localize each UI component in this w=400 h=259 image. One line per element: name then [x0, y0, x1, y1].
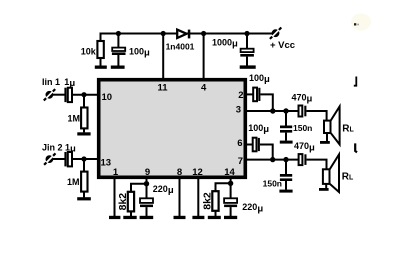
resistor 8k2 (1) [128, 192, 134, 212]
terminal Jin 2 [44, 153, 55, 164]
capacitor 470u (ch1) [299, 106, 303, 117]
wire pin 4 [203, 34, 205, 80]
speaker RL (ch1) [324, 121, 331, 133]
ground (1M in1) [77, 132, 90, 135]
node junction pin9 [144, 181, 149, 186]
diode D1 1n4001 [177, 30, 186, 38]
ground (150n ch2) [279, 190, 292, 193]
svg-text:8: 8 [177, 167, 182, 178]
svg-text:9: 9 [145, 167, 150, 178]
wire pin2 to C100u [246, 93, 254, 95]
resistor 1M (in2) [81, 172, 87, 192]
wire terminal2 to C1u [53, 158, 65, 160]
terminal Jin 1 [44, 89, 55, 100]
wire junction to R 1M (in2) [83, 159, 85, 172]
wire pin8 to ground [179, 178, 181, 216]
ground (1M in2) [77, 197, 91, 200]
terminal +Vcc [270, 28, 281, 39]
capacitor 220u (1) [140, 198, 153, 203]
wire C1u to pin10 [72, 94, 98, 96]
capacitor 220u (2) [224, 198, 237, 203]
bracket mark right edge [354, 77, 357, 86]
svg-text:4: 4 [201, 83, 207, 94]
node junction in1 [81, 92, 86, 97]
wire terminal1 to C1u [53, 94, 65, 96]
node junction pin14 [228, 181, 233, 186]
svg-text:150n: 150n [263, 179, 282, 189]
capacitor 100u (supply left) [112, 48, 125, 51]
svg-text:10k: 10k [81, 47, 97, 57]
ground (220u-1) [140, 216, 154, 219]
wire top rail from 10k to Vcc [101, 34, 274, 42]
svg-text:+ Vcc: + Vcc [270, 40, 295, 51]
ground (220u-2) [224, 216, 237, 219]
node junction rail / C1000u [244, 31, 249, 36]
svg-text:1M: 1M [67, 114, 80, 124]
svg-text:Jin 2: Jin 2 [42, 142, 63, 152]
capacitor 470u (ch2) [299, 154, 303, 165]
ground (8k2-2) [208, 216, 221, 219]
ground (C100u) [111, 66, 125, 69]
speck artifact top right [351, 14, 371, 31]
svg-text:10: 10 [102, 92, 113, 103]
svg-text:12: 12 [192, 167, 203, 178]
node junction rail / pin11 [161, 31, 166, 36]
small mark right edge lower [355, 143, 357, 152]
wire junction to R 1M (in1) [83, 95, 85, 108]
node junction ch2 a [270, 157, 275, 162]
wire pin14 down [230, 178, 232, 198]
svg-text:8k2: 8k2 [202, 192, 214, 210]
ground (C1000u) [240, 65, 256, 68]
wire junction to R8k2 (1) [131, 184, 147, 192]
capacitor 1u (in2) [64, 152, 66, 166]
wire C470u to speaker2 [307, 160, 327, 170]
svg-text:150n: 150n [293, 123, 312, 133]
wire rail to C 100u [117, 34, 119, 48]
capacitor 150n (ch1) [285, 111, 287, 126]
wire pin12 to ground [197, 178, 199, 216]
ground (8k2-1) [123, 216, 136, 219]
capacitor 100u (ch2) [253, 138, 257, 152]
ground (10k) [95, 66, 107, 69]
ground (pin12) [192, 216, 204, 219]
node junction ch1 a [270, 108, 275, 113]
svg-text:2: 2 [238, 90, 243, 101]
wire pin6 to C100u [246, 144, 253, 146]
wire C100u to pin3 net [260, 94, 272, 111]
svg-text:1: 1 [113, 167, 119, 178]
resistor 8k2 (2) [212, 191, 218, 211]
wire pin9 down [146, 178, 148, 198]
svg-text:3: 3 [236, 105, 241, 116]
wire pin1 to ground [114, 178, 116, 216]
svg-text:6: 6 [237, 138, 242, 149]
svg-text:1M: 1M [67, 177, 80, 187]
resistor 10k [97, 41, 103, 58]
capacitor 100u (ch1) [253, 88, 257, 102]
wire pin3 to C470u [246, 110, 299, 112]
speaker RL (ch2) [323, 169, 330, 184]
IC U1 body [99, 80, 246, 178]
ground (speaker2) [319, 188, 329, 191]
resistor 1M (in1) [81, 108, 87, 129]
wire C100u to pin7 net [260, 145, 273, 160]
node junction ch2 b [283, 157, 288, 162]
node junction rail / pin4 [201, 31, 206, 36]
ground (speaker1) [320, 141, 330, 144]
ground (pin1) [109, 216, 120, 219]
wire junction to R8k2 (2) [216, 183, 231, 191]
capacitor 1u (in1) [64, 88, 66, 102]
wire pin7 to C470u [246, 159, 299, 161]
wire C470u to speaker1 [307, 111, 327, 121]
wire pin 11 [162, 34, 164, 80]
svg-text:14: 14 [224, 167, 235, 178]
svg-text:Iin 1: Iin 1 [42, 77, 60, 87]
node junction ch1 b [283, 108, 288, 113]
node junction in2 [81, 156, 86, 161]
svg-text:1n4001: 1n4001 [166, 42, 195, 52]
svg-text:7: 7 [238, 156, 243, 167]
svg-text:8k2: 8k2 [117, 193, 129, 211]
ground (pin8) [174, 216, 186, 219]
node junction on rail at C 100u [116, 31, 121, 36]
svg-text:13: 13 [101, 158, 112, 169]
wire C1u to pin13 [72, 158, 98, 160]
svg-text:11: 11 [158, 83, 169, 94]
capacitor 150n (ch2) [285, 160, 287, 174]
ground (150n ch1) [280, 141, 293, 144]
capacitor 1000u [246, 34, 248, 49]
